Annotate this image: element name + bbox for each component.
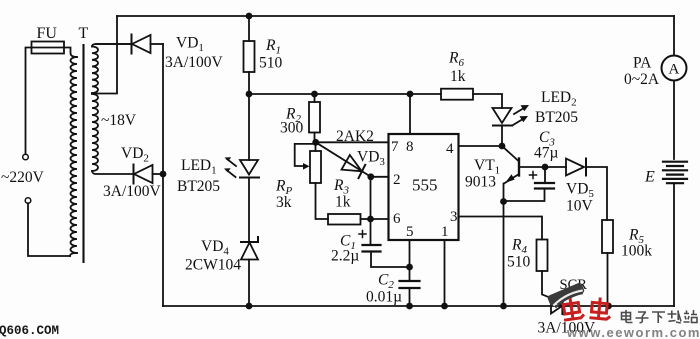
terminal 220V bottom <box>25 198 70 256</box>
wire bottom rail <box>163 305 674 307</box>
transformer secondary winding lower <box>92 94 98 171</box>
capacitor C3 <box>504 167 555 201</box>
watermark text dianzi xiazaizhan (vector strokes) <box>622 310 698 323</box>
capacitor C1 <box>359 219 410 267</box>
pin 4 <box>459 145 503 147</box>
op-amp U1 555 box <box>389 134 459 240</box>
diode VD2 <box>134 165 164 184</box>
pin 3 <box>459 217 543 240</box>
watermark url <box>567 325 700 339</box>
wire VD3 node down to pin6 node <box>370 177 372 219</box>
pin 1 <box>444 240 446 306</box>
zener VD5 <box>545 159 607 221</box>
wire negative vertical <box>162 44 164 306</box>
watermark red bug char 1 <box>561 297 584 321</box>
diode VD3 <box>316 142 371 178</box>
watermark logo blob <box>547 282 586 309</box>
resistor R6 <box>441 89 502 108</box>
terminal 220V top <box>23 48 32 160</box>
potentiometer RP <box>295 142 328 219</box>
resistor R3 <box>328 214 371 225</box>
diode VD1 <box>96 35 163 54</box>
pin 6 <box>371 218 389 220</box>
LED LED1 <box>224 157 259 177</box>
watermark Q606.COM <box>0 324 59 338</box>
wire LED1 chain top <box>248 94 250 160</box>
thyristor SCR <box>551 298 563 314</box>
watermark red bug char 2 <box>589 297 611 320</box>
pin 7 <box>316 141 389 143</box>
pin 2 <box>371 176 389 178</box>
wire top rail <box>117 15 674 17</box>
LED LED2 <box>493 105 530 146</box>
ammeter PA <box>662 16 687 159</box>
pin 5 <box>409 240 411 281</box>
transformer core <box>82 45 84 262</box>
wire LED1 to VD4 <box>248 178 250 243</box>
transistor VT1 <box>502 146 545 184</box>
fuse FU <box>32 42 65 54</box>
wire second rail <box>249 93 441 95</box>
wire center tap to top rail <box>92 16 117 94</box>
capacitor C2 <box>400 281 420 306</box>
resistor R4 <box>537 240 562 303</box>
zener VD4 <box>241 237 258 306</box>
resistor R5 <box>602 220 613 306</box>
resistor R2 <box>309 94 320 142</box>
wire emitter down <box>503 184 505 307</box>
battery E <box>663 162 687 306</box>
resistor R1 <box>244 16 255 94</box>
pin 8 <box>409 94 411 134</box>
transformer T primary winding <box>64 48 77 58</box>
transformer secondary winding upper <box>92 44 131 47</box>
